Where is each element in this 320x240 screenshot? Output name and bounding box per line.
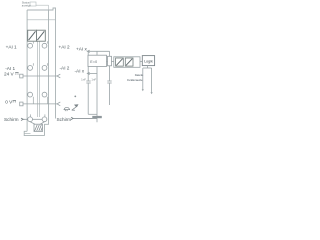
svg-text:0 V: 0 V <box>5 99 13 104</box>
svg-text:E≈0: E≈0 <box>90 60 97 64</box>
svg-text:-AI x: -AI x <box>75 68 85 73</box>
svg-text:Schirm: Schirm <box>4 117 19 122</box>
svg-text:1nF: 1nF <box>81 77 86 81</box>
svg-text:1nF: 1nF <box>91 77 96 81</box>
svg-text:+AI 2: +AI 2 <box>59 45 70 50</box>
svg-text:Datenk.: Datenk. <box>135 73 144 77</box>
svg-text:-AI 2: -AI 2 <box>60 65 70 70</box>
svg-text:+AI x: +AI x <box>76 46 87 51</box>
svg-text:Funktionserde: Funktionserde <box>127 78 143 82</box>
svg-text:Logik: Logik <box>144 60 153 64</box>
svg-text:Schirm: Schirm <box>57 117 72 122</box>
svg-text:+AI 1: +AI 1 <box>6 45 17 50</box>
svg-text:-AI 1: -AI 1 <box>5 66 15 71</box>
svg-text:24 V: 24 V <box>4 71 15 76</box>
